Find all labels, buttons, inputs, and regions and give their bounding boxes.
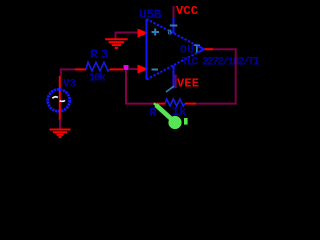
source V3 circle <box>48 89 70 111</box>
V+ plus crossbar <box>170 25 177 27</box>
wire V3 to R3 <box>61 69 75 76</box>
wire ground to +input <box>116 33 139 40</box>
svg-text:R: R <box>150 107 157 120</box>
wire node to -input <box>129 68 139 70</box>
svg-text:T: T <box>193 43 200 57</box>
svg-text:8: 8 <box>168 30 173 38</box>
resistor R4 right stub <box>185 103 196 105</box>
V+ power pin wire <box>173 18 175 34</box>
probe button <box>184 118 188 125</box>
sine mark inside V3 <box>52 97 58 99</box>
source V3 pin line through circle <box>59 76 61 111</box>
svg-text:3: 3 <box>101 47 109 62</box>
svg-text:U5B: U5B <box>139 7 162 22</box>
svg-text:VEE: VEE <box>177 77 199 91</box>
svg-text:R: R <box>90 47 98 62</box>
arrow into -input <box>138 65 149 74</box>
wire node down to bottom rail <box>126 70 153 104</box>
VCC bar <box>173 6 175 18</box>
node junction (magenta square) <box>124 65 129 70</box>
feedback wire right/down <box>196 49 236 103</box>
svg-text:VCC: VCC <box>176 4 198 18</box>
resistor R4 zigzag <box>165 99 185 106</box>
triangle vertex cap <box>200 47 205 49</box>
ground GND1 (top) <box>105 39 128 48</box>
probe shaft <box>156 105 173 121</box>
resistor R3 right stub <box>110 68 123 70</box>
resistor R3 zigzag <box>86 62 110 71</box>
svg-text:10k: 10k <box>89 73 107 85</box>
resistor R4 left stub <box>153 103 165 105</box>
arrow into +input <box>138 29 149 38</box>
op-amp U5B triangle left edge <box>146 19 148 80</box>
resistor R3 left stub <box>75 68 86 70</box>
+input mark <box>152 29 160 36</box>
source V3 bottom stub <box>59 109 61 120</box>
-input mark <box>152 69 159 71</box>
svg-text:V3: V3 <box>63 79 77 91</box>
op-amp top edge <box>147 19 205 49</box>
svg-text:TLC 2272/102/TI: TLC 2272/102/TI <box>182 57 259 69</box>
pin 4 mark <box>166 86 174 92</box>
ground GND2 (below V3) <box>50 130 71 138</box>
V- power pin wire <box>173 66 175 89</box>
output pin stub <box>205 48 214 50</box>
probe tip <box>154 103 158 107</box>
probe ball <box>168 116 181 129</box>
VEE bar <box>175 75 177 89</box>
op-amp bottom edge <box>147 49 205 79</box>
